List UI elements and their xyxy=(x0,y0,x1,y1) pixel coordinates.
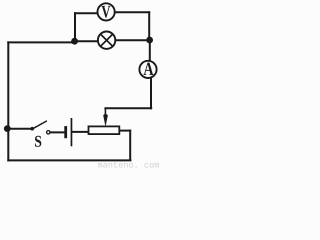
wire top-right vertical (down to node B) xyxy=(148,12,150,40)
wire top-right horizontal (voltmeter branch) xyxy=(115,11,149,13)
voltmeter V xyxy=(98,3,115,20)
wire left horizontal (node A to left rail) xyxy=(8,41,74,43)
switch S right contact xyxy=(47,131,50,134)
lamp xyxy=(98,32,115,49)
wire slider horizontal xyxy=(105,107,151,109)
wire rheostat to right drop xyxy=(119,130,130,132)
wire node C to switch pivot xyxy=(7,128,31,130)
rheostat body xyxy=(89,126,120,134)
switch S pivot dot xyxy=(30,127,34,131)
node A junction dot (left of lamp) xyxy=(71,38,78,45)
node B junction dot (right of lamp) xyxy=(146,37,153,44)
switch S blade xyxy=(32,121,47,129)
wire top-left vertical (voltmeter branch riser) xyxy=(74,13,76,41)
wire bottom xyxy=(8,159,130,161)
wire rheostat slider stem xyxy=(104,108,106,120)
watermark xyxy=(98,162,159,168)
wire right drop xyxy=(129,131,131,160)
battery negative plate (short thick) xyxy=(64,126,67,138)
wire right rail upper (node B to ammeter) xyxy=(149,40,151,61)
wire lamp left xyxy=(75,40,99,42)
wire switch contact to battery xyxy=(50,131,64,133)
rheostat slider arrowhead xyxy=(103,113,108,126)
battery positive plate (long thin) xyxy=(71,118,73,146)
wire left rail xyxy=(7,42,9,160)
switch S label xyxy=(35,136,41,147)
wire lamp right xyxy=(115,39,149,41)
wire top-left horizontal (voltmeter branch) xyxy=(75,12,98,14)
node C junction dot (left rail / switch branch) xyxy=(4,125,11,132)
ammeter A xyxy=(139,61,156,78)
wire right rail lower (ammeter to slider wire) xyxy=(150,78,152,108)
wire battery to rheostat xyxy=(72,131,88,133)
